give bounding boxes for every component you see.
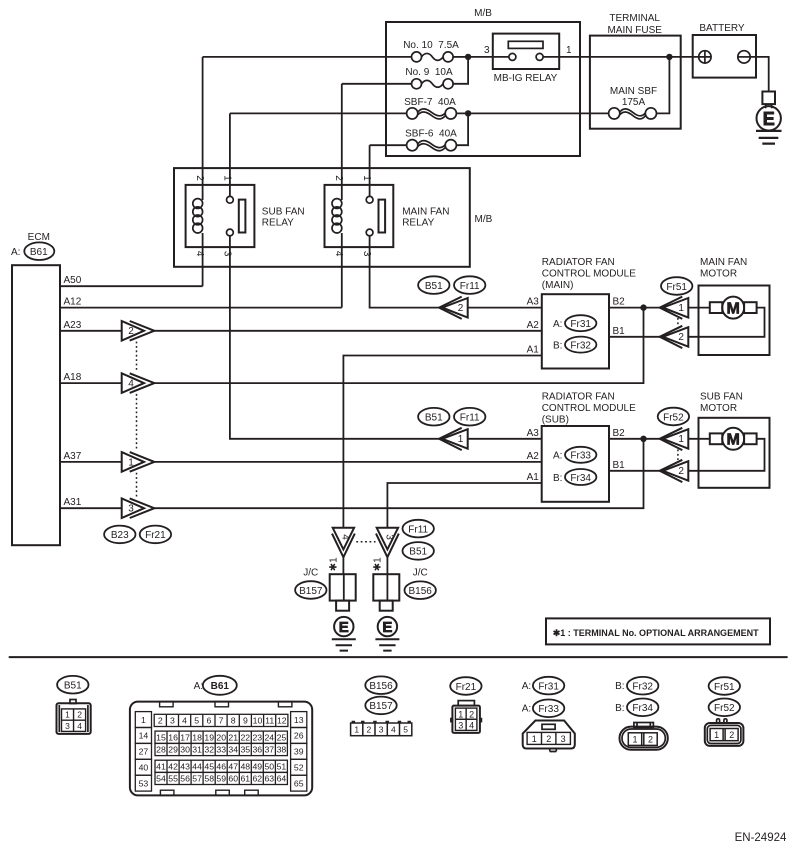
svg-text:CONTROL MODULE: CONTROL MODULE — [542, 403, 636, 414]
main fan motor box — [699, 286, 770, 356]
svg-text:Fr51: Fr51 — [666, 282, 687, 293]
svg-text:1: 1 — [221, 175, 232, 181]
fuse SBF-6 40A — [405, 129, 457, 151]
svg-text:52: 52 — [294, 763, 304, 773]
svg-text:35: 35 — [240, 745, 250, 755]
svg-text:SBF-7 40A: SBF-7 40A — [404, 97, 456, 108]
connector oval Fr52 (sub motor) — [658, 408, 689, 426]
svg-text:1: 1 — [566, 45, 572, 56]
svg-text:19: 19 — [204, 733, 214, 743]
svg-text:M: M — [727, 300, 740, 317]
svg-text:Fr34: Fr34 — [632, 703, 653, 714]
svg-text:55: 55 — [168, 774, 178, 784]
svg-text:RADIATOR FAN: RADIATOR FAN — [542, 257, 615, 268]
svg-text:B2: B2 — [613, 428, 626, 439]
wire sub relay pin2 vertical — [202, 57, 204, 200]
wire main A3 arrow to module — [468, 307, 542, 309]
battery — [693, 23, 756, 78]
connector oval Fr32 (legend) — [627, 677, 658, 695]
svg-text:61: 61 — [240, 774, 250, 784]
node junction SBF-7/SBF-6 — [465, 110, 471, 116]
connector oval Fr31 (legend) — [533, 677, 564, 695]
svg-text:B51: B51 — [425, 413, 443, 424]
svg-text:1: 1 — [678, 303, 684, 314]
wire main B1 to motor loop — [609, 336, 660, 338]
svg-text:B157: B157 — [369, 701, 393, 712]
main fan relay contact — [366, 196, 385, 236]
svg-text:58: 58 — [204, 774, 214, 784]
connector oval B156 (legend) — [365, 676, 396, 694]
connector arrow 1 (ECM A37) — [122, 452, 155, 472]
svg-text:45: 45 — [204, 762, 214, 772]
svg-text:29: 29 — [168, 745, 178, 755]
connector arrow 4 (down, main A1 ground) — [332, 528, 355, 557]
svg-text:(SUB): (SUB) — [542, 415, 569, 426]
svg-text:Fr11: Fr11 — [460, 413, 480, 424]
dotted connector line between down arrows — [356, 541, 375, 543]
connector B61 pin grid — [135, 712, 307, 792]
connector oval Fr51 (main motor) — [661, 277, 692, 295]
connector oval Fr51 (legend) — [709, 677, 740, 695]
sub fan relay K1 box — [186, 185, 255, 247]
wire A31 ECM to arrow 3 — [60, 507, 122, 509]
svg-text:20: 20 — [216, 733, 226, 743]
svg-text:4: 4 — [333, 251, 344, 257]
TERMINAL MAIN FUSE box — [590, 36, 681, 129]
svg-text:MAIN SBF: MAIN SBF — [610, 86, 657, 97]
svg-text:SUB FAN: SUB FAN — [700, 392, 743, 403]
connector Fr32/Fr34 pinout icon — [620, 723, 668, 750]
svg-text:1: 1 — [714, 730, 719, 740]
svg-text:B156: B156 — [409, 586, 433, 597]
connector oval B156 (J/C) — [405, 581, 436, 599]
M/B fuse box — [386, 22, 580, 156]
svg-text:1: 1 — [354, 725, 359, 735]
svg-text:CONTROL MODULE: CONTROL MODULE — [542, 269, 636, 280]
svg-text:2: 2 — [648, 734, 653, 744]
junction connector J/C B156 — [373, 574, 399, 610]
svg-text:B51: B51 — [64, 681, 82, 692]
svg-text:B51: B51 — [425, 281, 443, 292]
svg-text:B:: B: — [615, 681, 624, 692]
svg-text:40: 40 — [139, 763, 149, 773]
svg-text:9: 9 — [243, 716, 248, 726]
wire SBF-6 up to SBF-7 junction — [456, 113, 468, 145]
connector oval Fr21 (legend) — [450, 677, 481, 695]
svg-text:B156: B156 — [369, 681, 393, 692]
svg-text:2: 2 — [729, 730, 734, 740]
sub fan motor M2 — [688, 428, 764, 471]
wire main SBF up to battery junction — [657, 57, 670, 114]
svg-text:3: 3 — [379, 725, 384, 735]
MB-IG relay U1 — [493, 34, 559, 84]
svg-text:(MAIN): (MAIN) — [542, 280, 574, 291]
wire A12 ECM to main relay pin4 — [60, 307, 342, 309]
connector arrow 4 (ECM A18) — [122, 373, 155, 393]
wire sub relay coil bottom to pin4 out — [202, 233, 204, 286]
wire A23 arrow 2 to main module A2 — [154, 330, 542, 332]
svg-text:175A: 175A — [622, 97, 646, 108]
connector Fr31/Fr33 pinout icon — [523, 721, 575, 752]
svg-text:MAIN FAN: MAIN FAN — [402, 207, 449, 218]
svg-text:12: 12 — [277, 716, 287, 726]
svg-text:28: 28 — [156, 745, 166, 755]
svg-text:50: 50 — [264, 762, 274, 772]
svg-text:B:: B: — [615, 703, 624, 714]
svg-text:27: 27 — [139, 747, 149, 757]
svg-text:B51: B51 — [409, 547, 427, 558]
svg-text:3: 3 — [458, 721, 463, 731]
connector B156/B157 pinout strip — [351, 722, 412, 736]
connector oval Fr21 — [140, 526, 171, 544]
svg-text:Fr33: Fr33 — [538, 704, 559, 715]
svg-text:A:: A: — [522, 681, 531, 692]
wire SBF-7 feed to sub fan relay contact — [230, 112, 407, 114]
main fan relay coil — [332, 199, 342, 233]
svg-text:MOTOR: MOTOR — [700, 403, 737, 414]
svg-text:Fr32: Fr32 — [632, 682, 653, 693]
svg-text:1: 1 — [532, 734, 537, 744]
wire A23 ECM to arrow 2 — [60, 330, 122, 332]
svg-text:44: 44 — [192, 762, 202, 772]
connector arrow 2 (ECM A23) — [122, 321, 155, 341]
svg-text:E: E — [763, 109, 775, 129]
wire No.9 up to No.10 junction — [453, 57, 468, 84]
svg-text:2: 2 — [128, 326, 134, 337]
svg-text:7: 7 — [219, 716, 224, 726]
svg-text:1: 1 — [458, 434, 464, 445]
wire main B2 to motor — [609, 307, 660, 309]
svg-text:B2: B2 — [613, 297, 626, 308]
svg-text:36: 36 — [252, 745, 262, 755]
svg-text:MB-IG RELAY: MB-IG RELAY — [494, 73, 558, 84]
wire A50 ECM to sub relay pin4 — [60, 285, 203, 287]
label B: Fr34 — [553, 469, 596, 485]
wire A18 arrow 4 to main module B2 junction — [154, 308, 643, 384]
svg-text:BATTERY: BATTERY — [699, 23, 745, 34]
ground E (B157) — [332, 617, 356, 651]
svg-text:15: 15 — [156, 733, 166, 743]
svg-text:49: 49 — [252, 762, 262, 772]
fuse SBF-7 40A — [404, 97, 456, 119]
svg-text:22: 22 — [240, 733, 250, 743]
svg-text:64: 64 — [277, 774, 287, 784]
svg-text:A:: A: — [553, 319, 562, 330]
svg-text:TERMINAL: TERMINAL — [609, 13, 660, 24]
svg-text:2: 2 — [77, 710, 82, 720]
connector oval Fr11 (main A3) — [454, 276, 485, 294]
junction connector J/C B157 — [330, 574, 356, 610]
wire sub A3 arrow to module — [468, 438, 542, 440]
svg-text:A2: A2 — [527, 451, 540, 462]
svg-text:26: 26 — [294, 731, 304, 741]
sub fan relay contact — [227, 196, 246, 236]
svg-text:B1: B1 — [613, 460, 626, 471]
svg-text:42: 42 — [168, 762, 178, 772]
svg-text:A:: A: — [553, 451, 562, 462]
svg-text:4: 4 — [469, 721, 474, 731]
svg-text:1: 1 — [678, 434, 684, 445]
connector oval B51 (ground arrows) — [403, 542, 434, 560]
svg-text:4: 4 — [340, 534, 351, 540]
svg-text:47: 47 — [228, 762, 238, 772]
connector oval B157 (legend) — [365, 697, 396, 715]
connector B61 pinout body — [130, 702, 312, 796]
svg-text:3: 3 — [65, 721, 70, 731]
svg-text:EN-24924: EN-24924 — [735, 832, 787, 844]
svg-text:Fr32: Fr32 — [570, 340, 591, 351]
svg-text:62: 62 — [252, 774, 262, 784]
wire sub B2 to motor — [609, 438, 660, 440]
svg-text:46: 46 — [216, 762, 226, 772]
wire A37 ECM to arrow 1 — [60, 461, 122, 463]
svg-text:38: 38 — [277, 745, 287, 755]
connector oval B23 — [104, 526, 135, 544]
connector arrow 3 (ECM A31) — [122, 498, 155, 518]
svg-text:MAIN FAN: MAIN FAN — [700, 257, 747, 268]
connector oval Fr52 (legend) — [709, 699, 740, 717]
svg-text:Fr34: Fr34 — [570, 473, 591, 484]
svg-text:60: 60 — [228, 774, 238, 784]
svg-text:B61: B61 — [30, 247, 48, 258]
svg-text:10: 10 — [253, 716, 263, 726]
svg-text:MAIN FUSE: MAIN FUSE — [607, 25, 662, 36]
svg-text:Fr51: Fr51 — [714, 682, 735, 693]
svg-text:33: 33 — [216, 745, 226, 755]
svg-text:SBF-6 40A: SBF-6 40A — [405, 129, 457, 140]
svg-text:43: 43 — [180, 762, 190, 772]
svg-text:B:: B: — [553, 473, 562, 484]
svg-text:✱1: ✱1 — [329, 557, 340, 571]
svg-text:3: 3 — [384, 534, 395, 540]
svg-text:B23: B23 — [111, 530, 129, 541]
svg-text:2: 2 — [678, 466, 684, 477]
section divider — [9, 656, 788, 658]
wire A18 ECM to arrow 4 — [60, 382, 122, 384]
connector oval B61 (legend) — [203, 676, 237, 695]
radiator fan control module (main) box — [542, 294, 609, 368]
svg-text:✱1 : TERMINAL No. OPTIONAL ARR: ✱1 : TERMINAL No. OPTIONAL ARRANGEMENT — [553, 628, 759, 638]
svg-text:34: 34 — [228, 745, 238, 755]
ground E (battery) — [756, 92, 782, 144]
svg-text:SUB FAN: SUB FAN — [262, 207, 305, 218]
svg-text:2: 2 — [469, 709, 474, 719]
svg-text:A3: A3 — [527, 297, 540, 308]
wire main relay coil bottom to pin4 out — [341, 233, 343, 308]
svg-text:1: 1 — [128, 457, 134, 468]
connector arrow 1 (sub module A3) — [439, 428, 468, 450]
dotted connector line sub motor arrows — [677, 450, 679, 461]
svg-text:31: 31 — [192, 745, 202, 755]
svg-text:6: 6 — [206, 716, 211, 726]
svg-text:Fr31: Fr31 — [570, 319, 591, 330]
svg-text:1: 1 — [65, 710, 70, 720]
svg-text:4: 4 — [77, 721, 82, 731]
svg-text:A3: A3 — [527, 428, 540, 439]
connector oval B157 (J/C) — [295, 581, 326, 599]
svg-text:17: 17 — [180, 733, 190, 743]
connector oval B61 (ECM) — [24, 242, 54, 260]
svg-text:B:: B: — [553, 340, 562, 351]
svg-text:3: 3 — [170, 716, 175, 726]
svg-text:3: 3 — [561, 734, 566, 744]
svg-text:37: 37 — [264, 745, 274, 755]
svg-text:65: 65 — [294, 778, 304, 788]
svg-text:Fr11: Fr11 — [408, 524, 428, 535]
connector oval Fr34 (legend) — [627, 699, 658, 717]
svg-text:2: 2 — [333, 175, 344, 181]
svg-text:2: 2 — [158, 716, 163, 726]
node junction sub B2 — [640, 436, 646, 442]
svg-text:2: 2 — [367, 725, 372, 735]
wire No.10 fuse feed to sub fan relay coil — [203, 56, 412, 58]
svg-text:3: 3 — [484, 45, 490, 56]
svg-text:16: 16 — [168, 733, 178, 743]
svg-text:2: 2 — [546, 734, 551, 744]
svg-text:5: 5 — [194, 716, 199, 726]
svg-text:Fr31: Fr31 — [538, 681, 559, 692]
svg-text:ECM: ECM — [28, 232, 50, 243]
svg-text:B61: B61 — [211, 681, 230, 692]
svg-text:54: 54 — [156, 774, 166, 784]
svg-text:A1: A1 — [527, 345, 540, 356]
svg-text:M: M — [727, 432, 740, 449]
connector oval B51 (sub A3) — [418, 408, 449, 426]
svg-text:A:: A: — [11, 247, 20, 258]
svg-text:Fr33: Fr33 — [570, 451, 591, 462]
connector Fr21 pinout icon — [451, 701, 482, 733]
svg-text:57: 57 — [192, 774, 202, 784]
ground E (B156) — [375, 617, 399, 651]
svg-text:2: 2 — [194, 175, 205, 181]
svg-text:25: 25 — [277, 733, 287, 743]
svg-text:A23: A23 — [64, 320, 82, 331]
wire sub A1 to down arrow 3 — [387, 483, 541, 527]
svg-text:Fr21: Fr21 — [145, 530, 166, 541]
svg-text:E: E — [382, 619, 392, 636]
svg-text:4: 4 — [182, 716, 187, 726]
svg-text:14: 14 — [139, 731, 149, 741]
fuse No.10 7.5A — [403, 40, 459, 62]
svg-text:24: 24 — [264, 733, 274, 743]
svg-text:23: 23 — [252, 733, 262, 743]
svg-text:No. 10 7.5A: No. 10 7.5A — [403, 40, 459, 51]
sub fan relay coil — [193, 199, 203, 233]
connector oval Fr11 (ground arrows) — [403, 520, 434, 538]
svg-text:41: 41 — [156, 762, 166, 772]
svg-text:32: 32 — [204, 745, 214, 755]
svg-text:A37: A37 — [64, 451, 82, 462]
wire battery negative to ground — [750, 57, 769, 92]
svg-text:63: 63 — [264, 774, 274, 784]
svg-text:1: 1 — [361, 175, 372, 181]
svg-text:RELAY: RELAY — [262, 218, 294, 229]
svg-text:53: 53 — [139, 778, 149, 788]
svg-text:A12: A12 — [64, 297, 82, 308]
connector oval B51 (legend) — [57, 676, 88, 694]
node junction main B2 — [640, 304, 646, 310]
svg-text:51: 51 — [277, 762, 287, 772]
svg-text:RELAY: RELAY — [402, 218, 434, 229]
svg-text:A:: A: — [194, 681, 203, 692]
svg-text:21: 21 — [228, 733, 238, 743]
svg-text:MOTOR: MOTOR — [700, 269, 737, 280]
connector arrow 2 (main module A3) — [439, 297, 468, 319]
radiator fan control module (sub) box — [542, 426, 609, 502]
svg-text:13: 13 — [294, 715, 304, 725]
wire main relay pin2 vertical — [341, 84, 343, 200]
connector oval B51 (main A3) — [418, 276, 449, 294]
wire A31 arrow 3 to sub module B2 junction — [154, 439, 643, 508]
svg-text:M/B: M/B — [475, 214, 493, 225]
svg-text:A50: A50 — [64, 275, 82, 286]
main fan motor M1 — [688, 297, 764, 337]
svg-text:B157: B157 — [299, 586, 323, 597]
svg-text:Fr52: Fr52 — [714, 703, 735, 714]
svg-text:2: 2 — [678, 332, 684, 343]
fuse MAIN SBF 175A — [609, 86, 658, 119]
connector B51 pinout icon — [57, 700, 91, 734]
label A: Fr33 — [553, 447, 596, 463]
svg-text:3: 3 — [128, 504, 134, 515]
sub fan motor box — [699, 418, 770, 488]
svg-text:18: 18 — [192, 733, 202, 743]
svg-text:56: 56 — [180, 774, 190, 784]
wire sub relay pin1 vertical — [229, 113, 231, 196]
wire MB-IG relay pin1 to battery — [543, 56, 699, 58]
svg-text:A18: A18 — [64, 372, 82, 383]
M/B relay box — [174, 168, 470, 267]
connector arrow 1 (sub motor B2) — [660, 428, 689, 450]
wire No.10 to junction — [453, 56, 468, 58]
svg-text:J/C: J/C — [413, 568, 428, 579]
svg-text:A31: A31 — [64, 497, 82, 508]
svg-text:30: 30 — [180, 745, 190, 755]
dotted connector line main motor arrows — [677, 318, 679, 327]
connector arrow 1 (main motor B2) — [660, 297, 689, 319]
svg-text:11: 11 — [265, 716, 274, 726]
svg-text:A:: A: — [522, 704, 531, 715]
connector arrow 2 (sub motor B1) — [660, 460, 689, 482]
wire No.9 fuse feed to main fan relay coil — [342, 83, 412, 85]
ECM box — [12, 265, 60, 545]
label B: Fr32 — [553, 337, 596, 353]
svg-text:A1: A1 — [527, 472, 540, 483]
svg-text:4: 4 — [391, 725, 396, 735]
fuse No.9 10A — [405, 67, 453, 89]
svg-text:Fr52: Fr52 — [663, 412, 684, 423]
svg-text:A2: A2 — [527, 320, 540, 331]
connector oval Fr33 (legend) — [533, 700, 564, 718]
wire main relay pin3 down and right to main module A3 — [370, 236, 440, 308]
wire SBF-7 to junction and out to terminal main fuse — [456, 112, 608, 114]
svg-text:5: 5 — [403, 725, 408, 735]
wire arrow 3 to J/C B156 — [386, 557, 388, 574]
svg-text:J/C: J/C — [303, 568, 318, 579]
connector arrow 3 (down, sub A1 ground) — [376, 528, 399, 557]
svg-text:59: 59 — [216, 774, 226, 784]
wire sub B1 to motor loop — [609, 470, 660, 472]
svg-text:2: 2 — [458, 303, 464, 314]
svg-text:1: 1 — [458, 709, 463, 719]
svg-text:No. 9 10A: No. 9 10A — [405, 67, 453, 78]
svg-text:M/B: M/B — [474, 8, 492, 19]
label A: Fr31 — [553, 315, 596, 331]
wire A37 arrow 1 to sub module A2 — [154, 461, 541, 463]
svg-text:B1: B1 — [613, 326, 626, 337]
wire arrow 4 to J/C B157 — [342, 557, 344, 574]
svg-text:1: 1 — [632, 734, 637, 744]
